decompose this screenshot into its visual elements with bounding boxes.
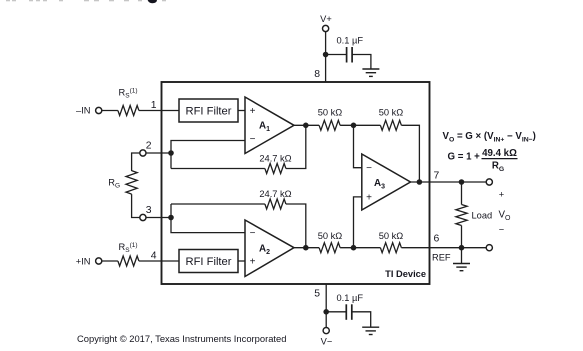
resistor 50k bottom-left xyxy=(319,243,340,253)
junction xyxy=(323,52,329,58)
resistor 24.7k A1 feedback xyxy=(171,168,265,170)
wire to RFI filter xyxy=(139,110,179,112)
wire A1 output row xyxy=(294,124,319,126)
svg-text:Copyright © 2017, Texas Instru: Copyright © 2017, Texas Instruments Inco… xyxy=(77,333,286,344)
resistor RS1 xyxy=(118,106,139,116)
svg-text:RFI Filter: RFI Filter xyxy=(186,106,232,118)
svg-text:50 kΩ: 50 kΩ xyxy=(379,231,404,241)
wire pin 5 xyxy=(325,284,327,328)
svg-text:50 kΩ: 50 kΩ xyxy=(318,231,343,241)
terminal ref xyxy=(486,245,492,251)
wire junction to C1 xyxy=(326,54,347,56)
terminal -IN xyxy=(96,107,102,113)
terminal V- xyxy=(323,328,329,334)
svg-text:RS(1): RS(1) xyxy=(119,88,138,100)
svg-text:+IN: +IN xyxy=(76,256,91,266)
resistor 50k bottom-right xyxy=(380,243,401,253)
svg-text:+: + xyxy=(250,106,256,117)
svg-text:−: − xyxy=(366,163,372,174)
junction load top xyxy=(459,179,465,185)
svg-text:0.1 µF: 0.1 µF xyxy=(337,36,364,46)
terminal +IN xyxy=(96,258,102,264)
wire A2 output row xyxy=(294,247,319,249)
svg-text:3: 3 xyxy=(146,205,152,216)
op-amp A2 xyxy=(245,220,294,277)
svg-text:RG: RG xyxy=(108,178,120,190)
svg-text:RS(1): RS(1) xyxy=(119,242,138,254)
svg-text:V−: V− xyxy=(321,337,333,347)
wire REF to terminal xyxy=(462,247,487,249)
resistor Load xyxy=(461,182,463,205)
svg-text:VO = G × (VIN+ − VIN−): VO = G × (VIN+ − VIN−) xyxy=(443,131,536,144)
svg-text:−: − xyxy=(250,134,256,145)
cropped heading fragments at top xyxy=(6,0,166,1)
node pin3 junction xyxy=(168,215,174,221)
resistor 24.7k A2 feedback xyxy=(171,203,265,205)
svg-text:7: 7 xyxy=(434,171,440,182)
resistor RS2 xyxy=(118,256,139,266)
wire xyxy=(340,247,380,249)
svg-text:A1: A1 xyxy=(259,121,270,134)
ground xyxy=(362,69,379,76)
wire C2 to ground xyxy=(352,312,371,327)
wire REF row out xyxy=(401,247,461,249)
wire RFI to A1 xyxy=(238,110,245,112)
junction A1 out xyxy=(303,123,309,129)
terminal out xyxy=(486,179,492,185)
svg-text:24.7 kΩ: 24.7 kΩ xyxy=(259,154,291,164)
wire to RG xyxy=(132,153,140,171)
svg-text:50 kΩ: 50 kΩ xyxy=(379,108,404,118)
svg-text:+: + xyxy=(499,190,504,200)
svg-text:G = 1 +: G = 1 + xyxy=(448,152,481,163)
wire C1 to ground xyxy=(352,55,371,70)
ground xyxy=(362,327,379,334)
RFI filter block 2 xyxy=(179,250,238,273)
svg-text:A3: A3 xyxy=(374,178,385,191)
junction feedback xyxy=(417,179,423,185)
wire xyxy=(102,260,118,262)
wire RFI2 to A2 xyxy=(238,260,245,262)
svg-text:4: 4 xyxy=(151,251,157,262)
svg-text:+: + xyxy=(366,192,372,203)
capacitor C1 0.1uF xyxy=(347,47,353,63)
svg-text:−: − xyxy=(499,225,504,235)
wire feedback to A3 output xyxy=(401,125,419,182)
resistor 50k top-right xyxy=(380,120,401,130)
svg-text:TI Device: TI Device xyxy=(385,269,426,279)
svg-text:VO: VO xyxy=(499,210,512,223)
svg-text:RG: RG xyxy=(492,161,504,174)
wire A2 inverting input loop xyxy=(171,204,245,233)
svg-text:8: 8 xyxy=(314,69,320,80)
svg-text:5: 5 xyxy=(314,289,320,300)
svg-text:−: − xyxy=(250,228,256,239)
wire A3 noninverting input xyxy=(354,197,362,248)
junction xyxy=(323,309,329,315)
svg-text:+: + xyxy=(250,257,256,268)
terminal RG top xyxy=(140,150,146,156)
terminal V+ xyxy=(323,25,329,31)
TI device box xyxy=(162,82,430,284)
op-amp A3 xyxy=(362,154,411,210)
junction mid bottom xyxy=(351,245,357,251)
wire junction to C2 xyxy=(326,311,346,313)
wire to RFI filter 2 xyxy=(139,260,179,262)
RFI filter block 1 xyxy=(179,99,238,122)
wire xyxy=(340,124,380,126)
junction A2 out xyxy=(303,245,309,251)
svg-text:24.7 kΩ: 24.7 kΩ xyxy=(259,189,291,199)
wire pin 3 xyxy=(146,217,171,219)
svg-text:REF: REF xyxy=(432,253,451,263)
svg-text:RFI Filter: RFI Filter xyxy=(186,256,232,268)
svg-text:V+: V+ xyxy=(320,14,332,24)
wire pin 2 xyxy=(146,152,171,154)
ground REF xyxy=(461,248,463,264)
capacitor C2 0.1uF xyxy=(346,304,352,320)
wire xyxy=(102,110,118,112)
wire A1 inverting input loop xyxy=(171,141,245,169)
svg-text:49.4 kΩ: 49.4 kΩ xyxy=(482,148,517,159)
svg-text:–IN: –IN xyxy=(76,106,90,116)
svg-text:2: 2 xyxy=(146,141,152,152)
junction mid top xyxy=(351,123,357,129)
terminal RG bottom xyxy=(140,214,146,220)
wire A3 inverting input xyxy=(354,125,362,167)
svg-text:6: 6 xyxy=(434,234,440,245)
svg-text:50 kΩ: 50 kΩ xyxy=(318,108,343,118)
resistor 50k top-left xyxy=(319,120,340,130)
wire A3 output pin 7 xyxy=(411,181,487,183)
wire V+ to pin 8 xyxy=(325,32,327,83)
svg-text:Load: Load xyxy=(472,211,493,221)
op-amp A1 xyxy=(245,97,294,154)
svg-text:A2: A2 xyxy=(259,244,270,257)
wire RG to pin3 xyxy=(132,194,140,217)
junction load bottom xyxy=(459,245,465,251)
svg-text:0.1 µF: 0.1 µF xyxy=(337,293,364,303)
node pin2 junction xyxy=(168,150,174,156)
svg-text:1: 1 xyxy=(151,100,157,111)
resistor RG xyxy=(126,171,137,194)
